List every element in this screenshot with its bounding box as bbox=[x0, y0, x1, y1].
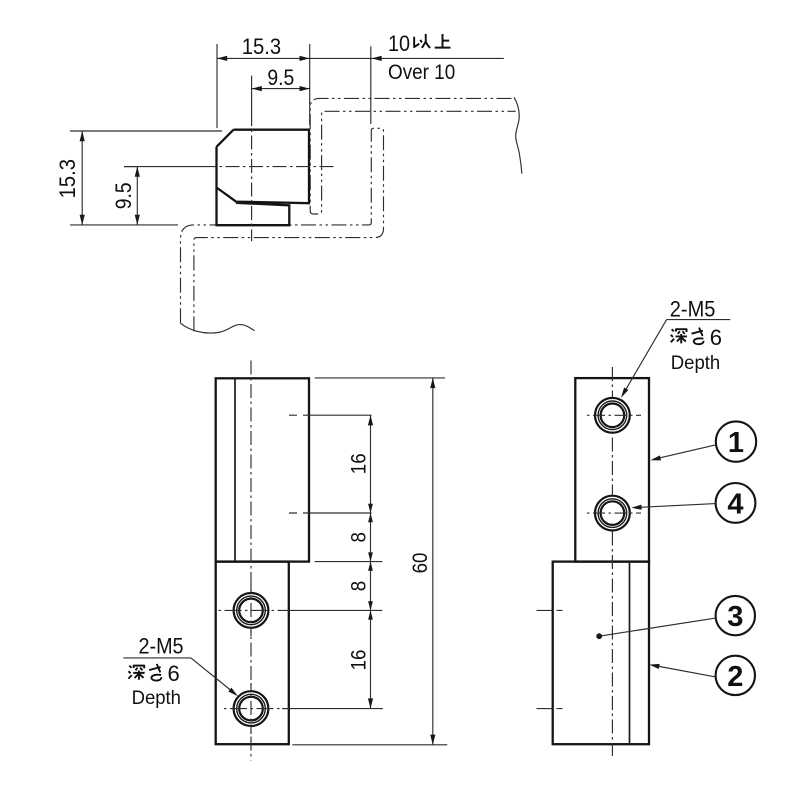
leader balloon 2 bbox=[652, 665, 716, 677]
door panel phantom outline bbox=[310, 98, 516, 214]
svg-text:9.5: 9.5 bbox=[267, 66, 294, 90]
svg-text:Depth: Depth bbox=[671, 353, 720, 375]
side view upper leaf bbox=[575, 378, 649, 561]
front view vertical centerline bbox=[250, 361, 252, 761]
front view lower leaf bbox=[216, 562, 289, 745]
kanji fukasa front bbox=[128, 666, 144, 680]
svg-text:10: 10 bbox=[388, 32, 410, 56]
svg-text:15.3: 15.3 bbox=[56, 159, 80, 198]
hole centerline side upper bbox=[585, 414, 641, 416]
svg-text:4: 4 bbox=[727, 488, 743, 520]
hole M5 side lower bbox=[595, 496, 630, 531]
dim 15.3 horizontal bbox=[216, 44, 218, 128]
dim chain 16-8-8-16 bbox=[289, 414, 372, 416]
hole centerline front upper bbox=[219, 609, 291, 611]
balloon 4 bbox=[716, 483, 756, 523]
svg-text:60: 60 bbox=[409, 553, 432, 574]
side view vertical centerline bbox=[611, 367, 613, 756]
stub centerlines left bbox=[537, 609, 568, 611]
top view horizontal centerline bbox=[124, 166, 202, 168]
door panel break line bbox=[514, 97, 522, 174]
side view lower leaf bbox=[553, 562, 649, 745]
svg-text:8: 8 bbox=[347, 581, 370, 591]
balloon 1 bbox=[716, 421, 756, 461]
leader balloon 1 bbox=[653, 445, 716, 460]
svg-text:6: 6 bbox=[710, 325, 722, 350]
dim 15.3 vertical bbox=[70, 130, 222, 132]
leader front label bbox=[191, 658, 236, 695]
svg-text:3: 3 bbox=[727, 601, 743, 633]
leader balloon 4 bbox=[634, 504, 716, 508]
balloon 2 bbox=[716, 656, 755, 695]
leader balloon 3 bbox=[599, 618, 715, 636]
kanji ijou bbox=[414, 34, 430, 48]
svg-text:Depth: Depth bbox=[132, 688, 181, 710]
leader side label bbox=[623, 320, 667, 396]
hole M5 side upper bbox=[595, 398, 630, 433]
dim 60 bbox=[315, 377, 445, 379]
svg-text:6: 6 bbox=[168, 661, 180, 686]
hole centerline front lower bbox=[222, 708, 291, 710]
svg-text:8: 8 bbox=[347, 532, 370, 542]
hole centerline side lower bbox=[585, 512, 641, 514]
dim 9.5 horizontal bbox=[252, 88, 310, 90]
svg-text:16: 16 bbox=[347, 453, 370, 474]
frame panel break line bbox=[181, 323, 255, 333]
top view vertical centerline bbox=[251, 76, 253, 112]
kanji fukasa side bbox=[671, 329, 687, 343]
front view chamfer edge line bbox=[234, 378, 236, 561]
svg-text:2-M5: 2-M5 bbox=[139, 635, 184, 659]
side view plate edge line bbox=[629, 562, 631, 745]
svg-text:16: 16 bbox=[347, 650, 370, 671]
svg-text:Over 10: Over 10 bbox=[388, 61, 455, 84]
svg-text:2: 2 bbox=[727, 661, 743, 693]
front view upper leaf bbox=[216, 378, 309, 561]
hole M5 front lower bbox=[234, 691, 269, 726]
svg-text:15.3: 15.3 bbox=[242, 35, 281, 59]
svg-text:2-M5: 2-M5 bbox=[670, 298, 716, 322]
hole M5 front upper bbox=[234, 593, 269, 628]
dim 9.5 vertical bbox=[124, 166, 137, 168]
balloon 3 bbox=[716, 596, 755, 635]
svg-text:1: 1 bbox=[728, 427, 744, 459]
svg-text:9.5: 9.5 bbox=[112, 182, 136, 209]
hinge body section outline bbox=[217, 130, 310, 226]
frame panel phantom outline bbox=[181, 128, 384, 332]
